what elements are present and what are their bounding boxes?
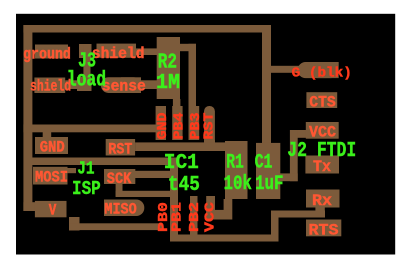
svg-text:10k: 10k bbox=[224, 173, 252, 196]
capacitor C1 body bbox=[256, 143, 280, 199]
svg-text:1uF: 1uF bbox=[255, 173, 283, 196]
svg-text:1M: 1M bbox=[156, 72, 180, 95]
wire board outline right vertical to C1 bbox=[262, 25, 271, 143]
svg-text:Rx: Rx bbox=[312, 192, 332, 210]
svg-text:SCK: SCK bbox=[107, 170, 132, 188]
wire RST pad to R1 bbox=[135, 142, 227, 151]
pad J1 MOSI bbox=[33, 167, 68, 185]
pad J2 G blk square right bbox=[317, 62, 339, 78]
wire R2 top to PB3 vertical bbox=[180, 44, 196, 51]
wire PB3 vertical bbox=[189, 44, 197, 140]
svg-text:MOSI: MOSI bbox=[35, 169, 68, 187]
wire V pad stub down bbox=[69, 217, 80, 231]
svg-text:V: V bbox=[49, 202, 57, 220]
wire vertical B PB2 down bbox=[190, 196, 198, 242]
wire band to IC area (behind J1) bbox=[25, 158, 178, 166]
wire J3 center vertical bar bbox=[83, 45, 90, 91]
pad IC1 pin GND bbox=[156, 106, 166, 140]
svg-text:MISO: MISO bbox=[104, 201, 136, 219]
wire Rx pad stub bbox=[315, 206, 324, 212]
pad J2 VCC bbox=[306, 122, 339, 139]
svg-text:sense: sense bbox=[102, 78, 146, 96]
wire J3 center top nub bbox=[79, 44, 92, 58]
wire R1 bottom stub bbox=[224, 199, 233, 210]
pad J1 V bbox=[35, 201, 67, 217]
pad J2 RTS bbox=[306, 220, 341, 237]
wire J3 center bottom nub bbox=[77, 77, 92, 91]
svg-text:ISP: ISP bbox=[72, 178, 101, 200]
svg-text:RST: RST bbox=[202, 113, 218, 140]
svg-text:IC1: IC1 bbox=[164, 152, 199, 175]
svg-text:PB4: PB4 bbox=[172, 113, 188, 140]
wire VCC pin column bbox=[206, 196, 215, 220]
pad J3 sense bbox=[101, 77, 141, 93]
wire vertical A down PB1 bbox=[170, 158, 178, 242]
svg-text:R1: R1 bbox=[226, 152, 244, 175]
pad IC1 pin PB3 bbox=[189, 106, 199, 140]
pad J2 Rx bbox=[306, 190, 340, 208]
wire shield bottom to center bbox=[65, 80, 83, 89]
svg-text:CTS: CTS bbox=[309, 94, 335, 112]
wire V pad horizontal bbox=[23, 202, 45, 211]
svg-text:RTS: RTS bbox=[309, 222, 339, 240]
svg-text:VCC: VCC bbox=[203, 201, 219, 232]
pad J1 RST bbox=[106, 139, 135, 156]
svg-text:ground: ground bbox=[23, 46, 71, 64]
wire Rx down vertical bbox=[271, 217, 279, 242]
wire MOSI pad right stub bbox=[68, 168, 77, 173]
svg-text:VCC: VCC bbox=[309, 124, 336, 142]
resistor R2 body bbox=[157, 37, 180, 99]
wire SCK pad right to A bbox=[135, 171, 178, 178]
wire G blk trace bbox=[271, 66, 299, 73]
svg-text:G (blk): G (blk) bbox=[292, 66, 352, 82]
pad J1 MISO square left bbox=[104, 200, 129, 217]
svg-text:PB2: PB2 bbox=[187, 202, 203, 232]
wire R1 to VCC pin horizontal bbox=[206, 210, 232, 220]
wire J2 VCC horizontal bbox=[290, 130, 306, 138]
wire board outline top edge bbox=[23, 25, 271, 33]
resistor R1 body bbox=[225, 141, 248, 199]
svg-text:RST: RST bbox=[108, 141, 132, 159]
pad J3 shield bottom bbox=[34, 78, 65, 94]
pad J2 CTS bbox=[306, 92, 337, 108]
wire SCK lower horizontal to A bbox=[116, 191, 178, 197]
wire shield top to R2 bbox=[136, 48, 158, 55]
pad J3 sense square right bbox=[121, 77, 141, 93]
pad J1 GND bbox=[35, 137, 68, 154]
wire J2 VCC vertical bbox=[290, 130, 298, 181]
svg-text:C1: C1 bbox=[255, 152, 273, 175]
wire J2 VCC arm to C1 bbox=[280, 173, 298, 181]
pad J1 SCK bbox=[104, 169, 135, 184]
pad J3 shield top bbox=[97, 44, 137, 58]
svg-text:PB1: PB1 bbox=[170, 202, 186, 232]
svg-text:GND: GND bbox=[40, 139, 65, 157]
pad IC1 pin PB4 bbox=[172, 106, 182, 140]
pad J3 ground bbox=[35, 45, 68, 59]
wire R2 bottom to PB4 bbox=[173, 99, 181, 140]
wire GND pad stub bbox=[43, 132, 52, 139]
pad J1 MISO bbox=[104, 200, 144, 217]
wire RST long band from left vertical bbox=[23, 125, 165, 133]
wire SCK bottom stub bbox=[116, 184, 123, 197]
pad IC1 pin RST lower square bbox=[204, 140, 215, 151]
wire V to PB0 horizontal bbox=[69, 223, 162, 230]
svg-text:load: load bbox=[67, 70, 107, 93]
wire Rx horizontal bbox=[271, 211, 325, 218]
wire bottom long trace bbox=[170, 235, 279, 242]
pad J2 G blk bbox=[298, 62, 339, 78]
svg-text:shield: shield bbox=[92, 45, 145, 63]
svg-text:J1: J1 bbox=[77, 160, 94, 180]
svg-text:t45: t45 bbox=[168, 174, 200, 197]
svg-text:J2 FTDI: J2 FTDI bbox=[287, 140, 356, 163]
pad IC1 pin RST bbox=[204, 106, 215, 151]
svg-text:GND: GND bbox=[155, 113, 171, 140]
pad J2 Tx bbox=[305, 156, 339, 174]
wire board outline left vertical bbox=[23, 25, 32, 211]
svg-text:shield: shield bbox=[30, 78, 71, 96]
wire sense neck to R2 bbox=[137, 80, 158, 89]
